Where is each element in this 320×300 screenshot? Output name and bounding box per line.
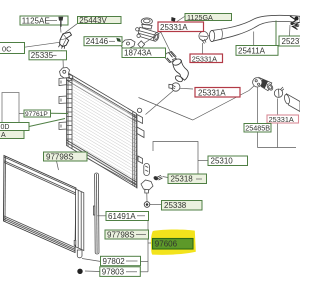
label 97803 bbox=[85, 267, 140, 277]
label 18743A bbox=[122, 48, 166, 58]
mounting bracket top-left (under 1125AE bolt) bbox=[59, 32, 72, 49]
water temperature sensor icon (18743A) bbox=[165, 52, 178, 63]
screw icon 25318 bbox=[153, 175, 163, 181]
svg-text:25331A: 25331A bbox=[192, 54, 217, 63]
leader clamp3 to 25331A#3 bbox=[180, 87, 193, 90]
svg-text:25485B: 25485B bbox=[245, 124, 270, 133]
label 97802 bbox=[82, 256, 141, 266]
leader bottom joining bar bbox=[258, 147, 297, 149]
engine bracket part (24146) bbox=[121, 40, 136, 49]
svg-text:97803: 97803 bbox=[102, 268, 125, 277]
leader 25338 to bolt bbox=[150, 204, 162, 206]
radiator left tank bbox=[59, 73, 72, 149]
radiator drain plug fitting bbox=[141, 180, 153, 202]
leader 25443V to bracket bbox=[64, 24, 77, 34]
leader 25318 bbox=[163, 177, 169, 178]
label 25338 bbox=[162, 201, 203, 211]
radiator core fins hatch bbox=[72, 80, 132, 181]
label 25335 bbox=[29, 51, 67, 60]
svg-text:25335: 25335 bbox=[31, 51, 54, 60]
svg-text:25443V: 25443V bbox=[79, 16, 107, 25]
green leader 97761P to radiator bbox=[51, 112, 69, 114]
bypass elbow hose bbox=[172, 58, 189, 83]
bolt icon 25338 bbox=[144, 202, 150, 208]
bottom centre leader verticals bbox=[147, 216, 149, 272]
lower hose straight piece bbox=[284, 94, 300, 112]
left white component box bbox=[2, 93, 19, 133]
gasket diamond bbox=[138, 41, 145, 48]
label 97798S #1 bbox=[44, 152, 88, 161]
leader 97798S#1 long diagonal bbox=[87, 158, 138, 186]
svg-text:0C: 0C bbox=[2, 45, 12, 54]
leader clamp4 down to 25331A#4 bbox=[277, 99, 279, 148]
svg-text:18743A: 18743A bbox=[124, 49, 152, 58]
svg-text:25318: 25318 bbox=[171, 175, 194, 184]
label 1125GA bbox=[185, 13, 232, 22]
radiator core outline bbox=[67, 72, 137, 188]
svg-text:25331A: 25331A bbox=[160, 23, 188, 32]
label box 0D (left edge) bbox=[0, 123, 29, 132]
leader 25335 screw to radiator tab bbox=[62, 59, 64, 68]
condenser panel bbox=[4, 156, 77, 253]
label 97761P bbox=[24, 110, 51, 118]
label box A (left edge) bbox=[0, 131, 24, 140]
leader clamp1 down to 25331A#2 bbox=[202, 43, 204, 54]
svg-text:97798S: 97798S bbox=[46, 152, 74, 161]
leader 97798S#1 short bbox=[57, 161, 59, 170]
leader from clamp3 down to radiator corner bbox=[146, 91, 174, 115]
leader 1125AE bolt to bracket bbox=[60, 27, 63, 33]
svg-text:61491A: 61491A bbox=[108, 212, 136, 221]
leader L-line 25310 bbox=[153, 142, 198, 175]
air guard strip bbox=[93, 173, 99, 254]
thermostat housing assembly bbox=[136, 18, 160, 42]
label 25485B bbox=[244, 124, 271, 133]
condenser mounting bolt (97803) bbox=[77, 269, 82, 274]
clip icons in white box bbox=[3, 124, 14, 129]
radiator top-left mounting tab bbox=[60, 68, 71, 79]
label 25237 bbox=[279, 36, 304, 46]
label 61491A bbox=[98, 212, 149, 221]
green leader boxA to radiator bbox=[29, 119, 65, 127]
hose clamp 3 (left) bbox=[169, 83, 180, 91]
water outlet fitting part (25237) bbox=[290, 16, 300, 36]
label 25331A #3 red bbox=[195, 88, 240, 98]
upper radiator hose bbox=[209, 15, 300, 41]
radiator right tank bbox=[133, 108, 150, 188]
leader 1125GA to gasket bbox=[140, 17, 185, 47]
svg-text:97802: 97802 bbox=[103, 257, 126, 266]
label 25331A #4 pink bbox=[267, 115, 299, 124]
condenser receiver drier tank bbox=[74, 189, 84, 258]
green leader hose to 25411A bbox=[275, 21, 277, 46]
svg-text:25237: 25237 bbox=[282, 37, 301, 46]
highlight 97606 yellow bbox=[151, 229, 196, 254]
leader white box to 97761P bbox=[19, 113, 24, 115]
hose clamp 4 bbox=[274, 87, 284, 98]
label 97606 highlighted bbox=[153, 239, 194, 250]
svg-text:24146: 24146 bbox=[86, 37, 109, 46]
svg-text:97798S: 97798S bbox=[107, 230, 135, 239]
label 25310 bbox=[208, 156, 248, 166]
leader upper hose to 25411A bbox=[253, 32, 255, 46]
leader clamp1 to hose bbox=[208, 35, 210, 37]
bolt icon on 1125GA leader bbox=[171, 17, 175, 22]
label 24146 bbox=[84, 37, 122, 46]
leader 25331A#1 to sensor bbox=[161, 32, 172, 54]
svg-text:97606: 97606 bbox=[155, 240, 178, 249]
label 25411A bbox=[236, 46, 278, 56]
label 1125AE bbox=[20, 16, 68, 27]
label 25331A #1 red bbox=[158, 22, 204, 32]
hose clamp 1 bbox=[199, 31, 208, 43]
svg-text:25411A: 25411A bbox=[238, 46, 266, 55]
svg-text:25331A: 25331A bbox=[198, 88, 226, 97]
label 25331A #2 red bbox=[190, 54, 223, 63]
lower hose elbow pipe bbox=[253, 78, 274, 92]
svg-text:25338: 25338 bbox=[164, 201, 187, 210]
label 25443V bbox=[78, 16, 122, 25]
svg-text:1125GA: 1125GA bbox=[187, 13, 213, 22]
svg-text:A: A bbox=[1, 132, 6, 139]
leader V line to lower hose parts bbox=[139, 86, 255, 121]
label 97798S #2 bbox=[105, 230, 149, 239]
label 0C cut at left edge bbox=[0, 43, 25, 54]
leader elbow down to 25485B bbox=[257, 87, 259, 148]
svg-text:25331A: 25331A bbox=[269, 115, 294, 124]
svg-text:1125AE: 1125AE bbox=[22, 16, 50, 25]
label 25318 bbox=[168, 174, 207, 184]
svg-text:25310: 25310 bbox=[211, 157, 234, 166]
screw icon 25335 bbox=[57, 51, 65, 59]
svg-text:97761P: 97761P bbox=[25, 111, 48, 118]
